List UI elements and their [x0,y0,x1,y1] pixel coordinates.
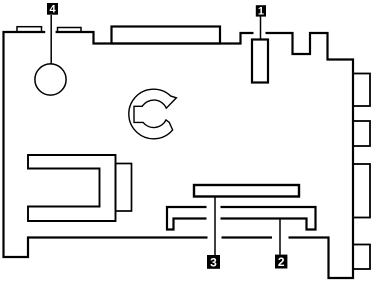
gap cover for callout 1 in top line [254,31,266,36]
label 2 [275,255,287,269]
top tab A [17,27,42,32]
bench component (item 2) [167,207,316,230]
callout line 2 [279,218,281,255]
bar component (item 3) [194,185,299,197]
right bump 2 [353,121,370,146]
gap cover for callout 3 in bench lines [207,205,221,222]
callout line 4 [50,15,52,64]
left connector (C-shape) [28,155,116,221]
top tab B [58,28,82,33]
callout line 1 [260,17,262,40]
svg-text:3: 3 [210,255,217,269]
top big tab [112,27,221,44]
label 3 [207,255,220,269]
gap cover for callout 2 in bottom line [272,234,289,241]
svg-text:4: 4 [49,4,56,16]
right bump 3 [353,164,370,218]
rect component (item 1) [252,40,268,83]
svg-text:1: 1 [258,6,264,18]
callout line 3 [214,197,216,256]
label 1 [256,5,266,17]
circle (item 4) [35,64,66,95]
gap cover for callout 4 in top line [45,30,55,34]
gap cover for callout 3 in bottom line [208,234,222,241]
right bump 4 [353,245,370,270]
label 4 [47,3,58,16]
right bump 1 [353,74,370,107]
left connector small rect [116,164,132,212]
svg-text:2: 2 [278,255,285,269]
C-clip glyph [129,89,177,139]
